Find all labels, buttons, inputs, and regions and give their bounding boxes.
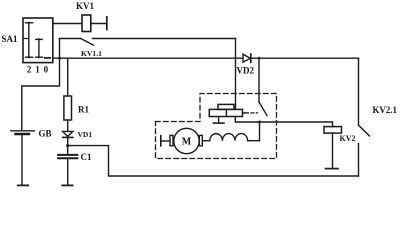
wire C1 to ground <box>67 159 69 184</box>
switch SA1 <box>23 18 53 63</box>
svg-text:KV1: KV1 <box>76 1 95 11</box>
wire SA1 lower stub to VD2 (bus) <box>53 57 243 59</box>
wire KV1.1 node down-left to battery <box>22 39 60 130</box>
wire VD1 to C1 <box>67 137 69 154</box>
governor contact blade <box>259 102 267 116</box>
svg-text:R1: R1 <box>78 104 89 114</box>
svg-text:M: M <box>182 137 192 148</box>
wire SA1 to KV1 coil <box>53 23 82 25</box>
governor terminal stub <box>213 117 224 124</box>
svg-text:VD2: VD2 <box>237 66 255 76</box>
terminal bar (KV2 bottom) <box>326 168 338 170</box>
relay coil KV1 <box>82 15 91 32</box>
svg-text:KV2: KV2 <box>340 134 356 143</box>
resistor R1 <box>64 96 72 120</box>
ground bar (C1) <box>62 184 72 186</box>
junction node after VD2 <box>258 57 261 60</box>
battery GB <box>11 131 35 134</box>
junction node B <box>258 121 261 124</box>
svg-text:2 1 0: 2 1 0 <box>27 65 49 75</box>
wire junction to bottom rail <box>68 146 359 176</box>
relay coil KV2 <box>324 127 342 134</box>
contact KV2.1 blade <box>359 125 370 136</box>
terminal bar after KV1 <box>106 17 108 30</box>
junction at SA1 bus <box>58 57 61 60</box>
centrifugal governor <box>209 104 242 116</box>
wire governor to KV2 coil <box>235 117 332 127</box>
svg-text:GB: GB <box>39 128 52 138</box>
wire KV2 to terminal <box>332 133 334 168</box>
wire R1 to VD1 <box>67 120 69 131</box>
wire VD2 node down to governor contact <box>258 58 260 102</box>
ground bar (battery) <box>18 184 28 186</box>
wire right side down to KV2.1 <box>358 58 360 125</box>
wire inductor up to node B <box>248 122 260 141</box>
wire bus down to R1 <box>67 58 69 96</box>
inductor (filter choke) <box>210 134 248 141</box>
wire battery to ground <box>21 135 23 184</box>
svg-text:SA1: SA1 <box>2 34 19 44</box>
wire KV1.1 down to governor <box>235 39 237 110</box>
governor linkage (dashed) <box>246 112 258 114</box>
diode VD1 <box>63 131 73 137</box>
junction between VD1 and C1 <box>66 144 69 147</box>
wire terminal to motor brush <box>161 140 170 142</box>
wire motor to inductor <box>202 140 210 142</box>
svg-text:KV2.1: KV2.1 <box>373 105 397 115</box>
terminal bar (motor input) <box>160 136 162 146</box>
wire VD2 to right corner <box>251 57 359 59</box>
motor M <box>170 128 202 153</box>
dashed enclosure (motor unit) <box>156 94 277 159</box>
wire KV1 to terminal <box>91 23 107 25</box>
contact KV1.1 <box>60 39 236 46</box>
svg-text:KV1.1: KV1.1 <box>81 49 102 58</box>
capacitor C1 <box>58 155 77 158</box>
svg-text:C1: C1 <box>81 152 92 162</box>
wire KV2.1 to bottom rail <box>358 144 360 177</box>
svg-text:VD1: VD1 <box>78 130 93 139</box>
governor linkage stub <box>243 112 246 114</box>
diode VD2 <box>243 54 251 62</box>
